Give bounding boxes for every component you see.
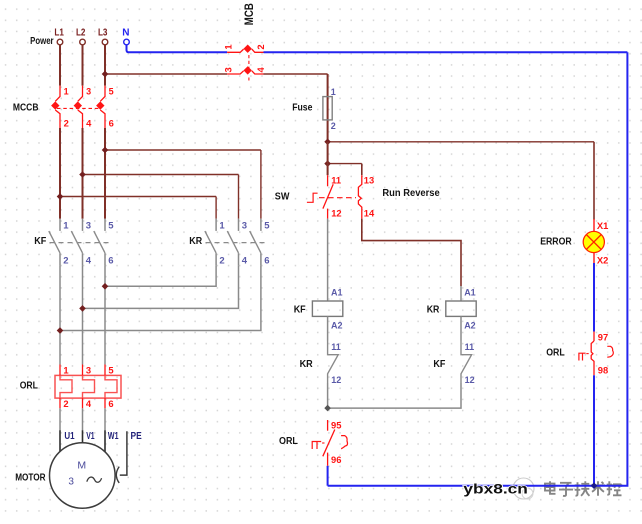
svg-text:MCCB: MCCB (13, 102, 39, 113)
svg-text:KF: KF (433, 359, 445, 370)
svg-text:L2: L2 (76, 28, 86, 39)
svg-text:3: 3 (223, 67, 234, 72)
svg-text:KR: KR (189, 236, 202, 247)
svg-text:M: M (77, 459, 86, 471)
svg-text:X2: X2 (597, 254, 608, 265)
svg-text:4: 4 (255, 67, 266, 73)
svg-text:1: 1 (63, 221, 69, 232)
svg-text:11: 11 (331, 342, 341, 352)
svg-text:1: 1 (219, 221, 225, 232)
svg-text:U1: U1 (64, 431, 75, 442)
svg-text:1: 1 (64, 87, 69, 97)
svg-text:Fuse: Fuse (292, 102, 313, 113)
svg-text:ORL: ORL (20, 381, 38, 392)
svg-text:3: 3 (86, 87, 91, 97)
svg-text:5: 5 (108, 221, 114, 232)
svg-text:MCB: MCB (242, 3, 256, 25)
svg-text:13: 13 (364, 175, 374, 186)
svg-text:A2: A2 (464, 321, 476, 331)
svg-text:12: 12 (465, 375, 475, 385)
svg-text:12: 12 (331, 375, 341, 385)
svg-text:6: 6 (108, 398, 113, 409)
svg-text:KR: KR (300, 359, 314, 370)
svg-text:2: 2 (219, 255, 224, 266)
svg-text:6: 6 (109, 117, 114, 128)
svg-text:5: 5 (264, 221, 270, 232)
svg-text:L3: L3 (98, 28, 108, 39)
svg-text:ORL: ORL (546, 347, 565, 358)
svg-text:4: 4 (86, 255, 92, 266)
svg-text:1: 1 (223, 44, 234, 49)
svg-text:KF: KF (34, 236, 46, 247)
svg-text:2: 2 (64, 117, 69, 128)
svg-text:ORL: ORL (279, 436, 298, 447)
svg-text:Power: Power (30, 36, 54, 47)
svg-text:1: 1 (331, 87, 336, 97)
svg-text:A1: A1 (464, 288, 476, 298)
svg-text:6: 6 (108, 255, 113, 266)
svg-text:2: 2 (63, 398, 68, 409)
svg-text:11: 11 (331, 175, 341, 186)
svg-text:N: N (122, 28, 129, 39)
svg-text:4: 4 (242, 255, 248, 266)
svg-text:MOTOR: MOTOR (15, 472, 46, 483)
svg-text:4: 4 (86, 398, 92, 409)
svg-text:4: 4 (86, 117, 92, 128)
svg-text:KR: KR (427, 304, 440, 315)
svg-text:5: 5 (109, 87, 114, 97)
svg-text:KF: KF (294, 304, 306, 315)
svg-text:3: 3 (86, 221, 91, 232)
svg-text:2: 2 (63, 255, 68, 266)
svg-text:98: 98 (598, 365, 608, 376)
svg-text:SW: SW (275, 191, 290, 202)
svg-text:95: 95 (331, 420, 341, 431)
svg-text:1: 1 (63, 365, 68, 376)
svg-text:3: 3 (68, 477, 74, 488)
svg-text:Run Reverse: Run Reverse (382, 188, 440, 199)
svg-text:A1: A1 (331, 288, 343, 298)
svg-text:96: 96 (331, 454, 341, 465)
svg-text:14: 14 (364, 207, 375, 218)
svg-text:ybx8.cn: ybx8.cn (463, 481, 528, 497)
svg-text:11: 11 (465, 342, 475, 352)
svg-text:12: 12 (331, 207, 341, 218)
svg-text:2: 2 (331, 121, 336, 131)
svg-text:A2: A2 (331, 321, 343, 331)
svg-text:2: 2 (255, 44, 266, 49)
svg-text:PE: PE (131, 431, 142, 442)
svg-text:ERROR: ERROR (540, 236, 572, 247)
svg-text:L1: L1 (54, 28, 64, 39)
svg-text:3: 3 (86, 365, 91, 376)
svg-text:5: 5 (108, 365, 113, 376)
svg-text:97: 97 (598, 331, 608, 342)
svg-text:V1: V1 (86, 431, 95, 442)
svg-text:X1: X1 (597, 220, 608, 231)
svg-text:6: 6 (264, 255, 269, 266)
svg-text:W1: W1 (108, 431, 119, 442)
svg-text:3: 3 (242, 221, 247, 232)
